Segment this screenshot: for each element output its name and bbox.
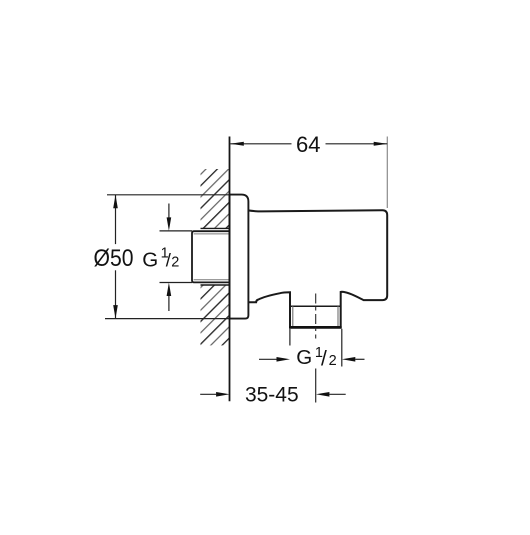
- arrow Ø50 down: [113, 305, 118, 319]
- outlet thread crest right: [337, 306, 339, 326]
- dimension G1/2 outlet: right extension line: [341, 329, 343, 367]
- arrow G1/2 upper (down): [168, 204, 170, 220]
- arrow Ø50 up: [113, 195, 118, 209]
- arrow 64 right: [374, 142, 388, 146]
- body of wall union (fill): [248, 210, 387, 327]
- wall hatching upper block: [201, 169, 230, 228]
- inlet thread G1/2 behind wall: [192, 231, 230, 282]
- svg-text:/: /: [321, 347, 327, 370]
- outlet collar/thread boundary: [289, 305, 341, 307]
- dimension G1/2 outlet: left extension line: [289, 329, 291, 346]
- dimension G1/2 inlet: lower extension line: [160, 282, 193, 284]
- arrow G1/2 lower (up): [168, 296, 170, 311]
- dimension Ø50: bottom extension line: [105, 318, 229, 320]
- wall face line: [229, 137, 231, 402]
- body outline: [248, 210, 387, 327]
- svg-text:Ø50: Ø50: [94, 245, 134, 272]
- dimension Ø50 line lower segment: [115, 270, 117, 318]
- escutcheon flange: [230, 195, 249, 319]
- dimension 64 line right segment: [326, 143, 388, 145]
- dimension G1/2 outlet line left: [259, 358, 277, 360]
- svg-text:35-45: 35-45: [245, 383, 299, 406]
- svg-text:64: 64: [296, 132, 320, 157]
- svg-text:G: G: [142, 248, 158, 271]
- svg-text:2: 2: [329, 353, 337, 369]
- outlet bottom edge thick: [289, 326, 342, 329]
- dimension G1/2 outlet line right: [355, 358, 364, 360]
- svg-text:2: 2: [171, 255, 179, 271]
- wall hole edge upper: [201, 227, 230, 229]
- centerline of outlet: [315, 294, 317, 339]
- wall hole edge lower: [201, 284, 230, 286]
- dimension 35-45 line right: [329, 393, 345, 395]
- arrow 64 left: [230, 142, 244, 146]
- dimension Ø50 line upper segment: [115, 195, 117, 244]
- dimension 64 line left segment: [230, 143, 291, 145]
- outlet thread crest left: [292, 306, 294, 326]
- dimension 35-45 line left: [200, 393, 216, 395]
- wall hatching lower block: [201, 285, 230, 345]
- dimension G1/2 inlet: upper extension line: [160, 230, 193, 232]
- dimension Ø50: top extension line: [107, 194, 229, 196]
- dimension 64: right extension line: [386, 137, 388, 209]
- svg-text:G: G: [296, 346, 312, 369]
